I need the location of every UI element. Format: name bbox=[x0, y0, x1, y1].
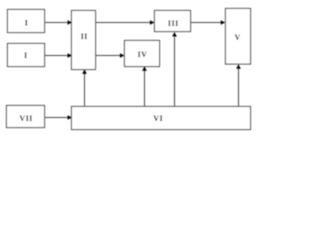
svg-text:III: III bbox=[168, 19, 179, 28]
svg-text:I: I bbox=[25, 19, 29, 28]
svg-text:IV: IV bbox=[137, 50, 147, 59]
svg-text:II: II bbox=[81, 32, 88, 41]
svg-text:V: V bbox=[234, 33, 240, 42]
svg-text:VII: VII bbox=[19, 114, 33, 123]
svg-text:VI: VI bbox=[153, 114, 163, 123]
svg-text:I: I bbox=[24, 51, 28, 60]
